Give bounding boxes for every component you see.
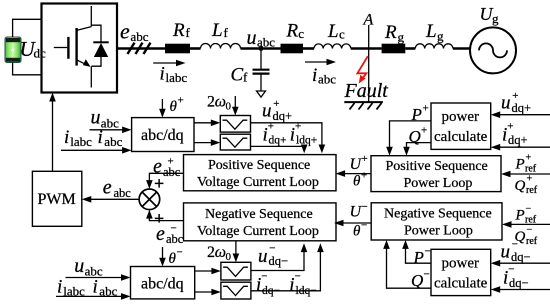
- negative sequence power loop box: [371, 203, 502, 240]
- abc/dq box (upper): [132, 118, 194, 152]
- svg-text:abc: abc: [131, 29, 149, 44]
- svg-text:power: power: [442, 255, 480, 271]
- ground (earth, at fault): [344, 102, 383, 109]
- arrow iabc: [305, 61, 329, 63]
- svg-text:−: −: [295, 271, 301, 283]
- wire uabc to abc/dq: [90, 129, 125, 131]
- transistor Q1 (IGBT): [54, 6, 92, 88]
- svg-text:Negative Sequence: Negative Sequence: [384, 207, 492, 222]
- svg-text:+: +: [423, 103, 429, 115]
- svg-text:calculate: calculate: [434, 275, 488, 291]
- wire Rf to Lf: [190, 47, 201, 50]
- arrow ilabc: [153, 62, 178, 64]
- svg-text:−: −: [425, 246, 431, 258]
- theta- arrow (lower): [162, 247, 164, 260]
- svg-text:dc: dc: [34, 46, 47, 61]
- svg-text:L: L: [327, 21, 339, 42]
- svg-text:ref: ref: [526, 185, 538, 196]
- node uabc (dot): [259, 46, 264, 51]
- wire Pref- Qref-: [509, 223, 550, 225]
- svg-text:abc: abc: [257, 35, 275, 50]
- svg-text:i: i: [160, 63, 165, 84]
- svg-text:g: g: [398, 30, 405, 45]
- svg-text:ref: ref: [526, 236, 538, 247]
- svg-text:c: c: [339, 27, 345, 42]
- svg-text:u: u: [262, 101, 272, 122]
- inductor Lg: [415, 44, 453, 49]
- wire inverter output: [117, 47, 165, 50]
- svg-text:ldq+: ldq+: [296, 135, 317, 147]
- svg-text:Positive Sequence: Positive Sequence: [386, 159, 488, 174]
- svg-text:−: −: [508, 264, 514, 276]
- svg-text:−: −: [361, 220, 367, 232]
- svg-text:+: +: [268, 121, 274, 133]
- wire battery top to inverter: [13, 19, 42, 37]
- wire Lf to node uabc: [241, 47, 281, 50]
- svg-text:−: −: [261, 271, 267, 283]
- wire lower abc/dq to filter 3: [195, 270, 214, 272]
- svg-text:P: P: [413, 248, 424, 267]
- svg-text:C: C: [231, 65, 244, 86]
- svg-text:i: i: [93, 277, 98, 298]
- svg-text:L: L: [425, 21, 437, 42]
- wire Rc to Lc: [303, 47, 314, 50]
- power calculate box (lower): [431, 249, 491, 295]
- svg-text:+: +: [168, 156, 174, 168]
- svg-text:+: +: [362, 153, 368, 165]
- svg-text:u: u: [91, 107, 101, 129]
- arrow 2w0 (upper): [234, 96, 236, 109]
- svg-text:abc: abc: [104, 134, 122, 149]
- inverter box: [42, 4, 118, 93]
- svg-text:e: e: [156, 223, 165, 245]
- svg-text:labc: labc: [70, 134, 92, 149]
- svg-text:+: +: [273, 98, 279, 110]
- svg-text:θ: θ: [353, 174, 361, 190]
- filter F2 (notch): [220, 134, 250, 150]
- wire abc/dq to filter 2: [194, 142, 213, 144]
- svg-text:+: +: [295, 121, 301, 133]
- svg-text:ldq−: ldq−: [296, 285, 317, 297]
- svg-text:P: P: [411, 105, 422, 124]
- node A vertical line: [368, 25, 370, 102]
- svg-text:L: L: [211, 20, 223, 41]
- svg-text:calculate: calculate: [434, 129, 488, 145]
- svg-text:Q: Q: [411, 271, 423, 290]
- PWM box: [32, 171, 81, 226]
- wire idq- input: [498, 289, 550, 291]
- svg-text:ω: ω: [215, 94, 226, 111]
- wire lower abc/dq to filter 4: [195, 291, 214, 293]
- svg-text:−: −: [527, 225, 533, 236]
- svg-text:i: i: [57, 277, 62, 298]
- svg-text:dq+: dq+: [512, 101, 532, 115]
- wire U- theta- (power loop to VC loop): [341, 222, 371, 224]
- svg-text:R: R: [286, 20, 299, 41]
- three-phase slashes: [128, 43, 151, 54]
- svg-text:θ: θ: [170, 99, 178, 115]
- wire PWM to inverter: [52, 99, 54, 171]
- AC source Ug: [470, 27, 516, 73]
- wire Rg to Lg: [405, 47, 415, 50]
- filter F4 (notch): [221, 282, 251, 299]
- wire P-: [406, 247, 432, 263]
- wire eabc+ into summing junction: [149, 173, 183, 182]
- svg-text:+: +: [421, 125, 427, 137]
- svg-text:A: A: [363, 12, 374, 29]
- svg-text:−: −: [177, 247, 183, 259]
- wire abc/dq to filter 1: [194, 122, 213, 124]
- wire U+ theta+ (power loop to VC loop): [343, 173, 371, 175]
- wire idq+ input: [498, 146, 550, 148]
- svg-text:dq−: dq−: [511, 250, 531, 264]
- resistor Rf: [165, 44, 190, 54]
- svg-text:u: u: [247, 27, 257, 49]
- svg-text:i: i: [98, 127, 103, 148]
- svg-text:dq+: dq+: [273, 109, 293, 123]
- svg-text:abc: abc: [101, 115, 119, 130]
- wire ilabc to abc/dq: [61, 149, 125, 151]
- svg-text:power: power: [442, 109, 480, 125]
- wire F4 to negative VC loop: [251, 250, 321, 291]
- capacitor Cf: [253, 49, 270, 92]
- svg-text:+: +: [361, 170, 367, 182]
- svg-text:dq−: dq−: [262, 285, 280, 297]
- svg-text:labc: labc: [166, 70, 188, 85]
- wire F3 to negative VC loop: [251, 250, 304, 271]
- filter F3 (notch): [221, 262, 251, 280]
- svg-text:+: +: [526, 153, 532, 164]
- wire Lg to Ug: [453, 47, 470, 50]
- svg-text:Power Loop: Power Loop: [404, 176, 473, 191]
- wire eabc- into summing junction: [149, 216, 183, 221]
- svg-text:g: g: [437, 29, 444, 44]
- svg-text:dq+: dq+: [508, 133, 528, 147]
- svg-text:−: −: [171, 223, 177, 235]
- svg-text:−: −: [526, 204, 532, 215]
- svg-text:abc: abc: [318, 72, 336, 87]
- wire P+: [390, 121, 432, 149]
- svg-text:+: +: [527, 174, 533, 185]
- svg-text:e: e: [103, 177, 112, 199]
- svg-text:Positive Sequence: Positive Sequence: [208, 158, 310, 173]
- svg-text:+: +: [178, 95, 184, 107]
- ground (open arrow): [257, 91, 266, 97]
- svg-text:−: −: [362, 201, 368, 213]
- svg-text:PWM: PWM: [38, 191, 76, 208]
- svg-text:0: 0: [226, 101, 232, 113]
- svg-text:u: u: [501, 242, 511, 263]
- svg-text:dq+: dq+: [269, 135, 287, 147]
- wire uabc to lower abc/dq: [66, 277, 124, 279]
- filter F1 (notch): [220, 116, 250, 133]
- svg-text:+: +: [507, 121, 513, 133]
- svg-text:u: u: [74, 255, 84, 277]
- svg-text:+: +: [512, 90, 518, 102]
- svg-text:u: u: [258, 246, 268, 267]
- svg-text:P: P: [515, 208, 525, 224]
- svg-text:g: g: [492, 11, 499, 26]
- svg-text:Q: Q: [515, 178, 526, 194]
- svg-text:i: i: [64, 127, 69, 148]
- svg-text:ω: ω: [215, 244, 226, 261]
- power calculate box (upper): [431, 103, 491, 149]
- battery Udc: [5, 37, 21, 63]
- svg-text:θ: θ: [169, 251, 177, 267]
- svg-text:Power Loop: Power Loop: [404, 224, 473, 239]
- svg-text:Voltage Current Loop: Voltage Current Loop: [197, 175, 319, 190]
- wire Q+: [407, 143, 432, 149]
- svg-text:c: c: [298, 26, 304, 41]
- svg-text:abc/dq: abc/dq: [141, 127, 184, 144]
- svg-text:R: R: [172, 20, 185, 41]
- svg-text:dq−: dq−: [269, 254, 289, 268]
- svg-text:dq−: dq−: [509, 276, 529, 290]
- positive sequence power loop box: [371, 156, 501, 192]
- diode D1 (antiparallel): [91, 25, 108, 66]
- svg-text:i: i: [312, 65, 317, 86]
- svg-text:e: e: [153, 156, 162, 178]
- wire battery bottom to inverter: [13, 63, 42, 75]
- wire Lc to Rg: [351, 47, 382, 50]
- svg-text:abc: abc: [114, 186, 132, 200]
- svg-text:f: f: [243, 70, 248, 85]
- wire ilabc to lower abc/dq: [56, 295, 123, 297]
- inductor Lf: [201, 44, 241, 49]
- svg-text:−: −: [269, 243, 275, 255]
- svg-text:0: 0: [226, 251, 232, 263]
- svg-text:Q: Q: [409, 127, 421, 146]
- wire summing junction to PWM: [89, 198, 139, 200]
- summing junction: [139, 189, 160, 210]
- svg-text:−: −: [512, 239, 518, 251]
- svg-text:u: u: [501, 93, 511, 114]
- arrow 2w0 (lower) from neg VC loop: [235, 241, 237, 256]
- svg-text:Negative Sequence: Negative Sequence: [205, 207, 313, 222]
- svg-text:P: P: [515, 157, 525, 173]
- inductor Lc: [314, 44, 351, 49]
- resistor Rg: [382, 44, 406, 54]
- svg-text:θ: θ: [353, 224, 361, 240]
- svg-text:−: −: [424, 269, 430, 281]
- svg-text:abc/dq: abc/dq: [141, 276, 184, 293]
- wire Q-: [387, 247, 432, 288]
- svg-text:f: f: [186, 25, 191, 40]
- fault lightning (red): [357, 56, 367, 83]
- svg-text:R: R: [384, 22, 397, 43]
- wire udq- input: [498, 262, 550, 264]
- resistor Rc: [281, 44, 304, 54]
- svg-text:f: f: [224, 25, 229, 40]
- theta+ arrow (upper): [161, 99, 163, 111]
- svg-text:Fault: Fault: [344, 80, 389, 102]
- negative sequence voltage current loop box: [184, 203, 337, 241]
- wire F1 to positive VC loop: [251, 123, 322, 147]
- svg-text:e: e: [120, 19, 130, 44]
- wire F2 to positive VC loop: [251, 145, 305, 147]
- svg-text:Voltage Current Loop: Voltage Current Loop: [197, 224, 319, 239]
- abc/dq box (lower): [131, 267, 195, 299]
- wire Pref+ Qref+: [508, 173, 550, 175]
- positive sequence voltage current loop box: [184, 155, 337, 191]
- wire udq+ input: [498, 114, 550, 116]
